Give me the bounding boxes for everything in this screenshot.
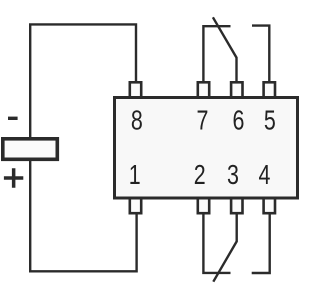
wire battery minus to top xyxy=(30,24,136,137)
svg-text:4: 4 xyxy=(259,159,271,191)
pin 4 xyxy=(264,198,275,213)
pin label 4 xyxy=(259,159,271,191)
pin 6 xyxy=(231,82,242,97)
svg-text:1: 1 xyxy=(129,159,141,191)
battery minus label xyxy=(8,117,18,120)
pin label 3 xyxy=(227,159,239,191)
svg-text:2: 2 xyxy=(194,159,206,191)
relay body U1 xyxy=(115,98,298,199)
svg-text:3: 3 xyxy=(227,159,239,191)
pin label 6 xyxy=(233,105,245,137)
wire pin 7 up with contact stub xyxy=(203,26,230,82)
pin 3 xyxy=(231,198,242,213)
pin label 2 xyxy=(194,159,206,191)
pin 8 xyxy=(130,82,141,97)
pin label 8 xyxy=(131,105,143,137)
wire pin 4 down with contact stub xyxy=(252,214,270,274)
battery BT1 xyxy=(3,139,58,160)
pin 2 xyxy=(198,198,209,213)
pin 7 xyxy=(198,82,209,97)
svg-text:6: 6 xyxy=(233,105,245,137)
wire pin 2 down with contact stub xyxy=(203,214,230,273)
battery plus label xyxy=(4,168,23,187)
switch blade S1 (pin 6 common) xyxy=(213,17,237,82)
switch blade S2 (pin 3 common) xyxy=(213,214,236,282)
svg-text:5: 5 xyxy=(264,105,276,137)
pin 1 xyxy=(130,198,141,213)
wire battery plus to pin 1 xyxy=(30,161,136,271)
svg-text:7: 7 xyxy=(197,105,209,137)
pin label 7 xyxy=(197,105,209,137)
wire pin 5 up with contact stub xyxy=(252,26,269,82)
svg-text:8: 8 xyxy=(131,105,143,137)
pin 5 xyxy=(264,82,275,97)
pin label 1 xyxy=(129,159,141,191)
pin label 5 xyxy=(264,105,276,137)
